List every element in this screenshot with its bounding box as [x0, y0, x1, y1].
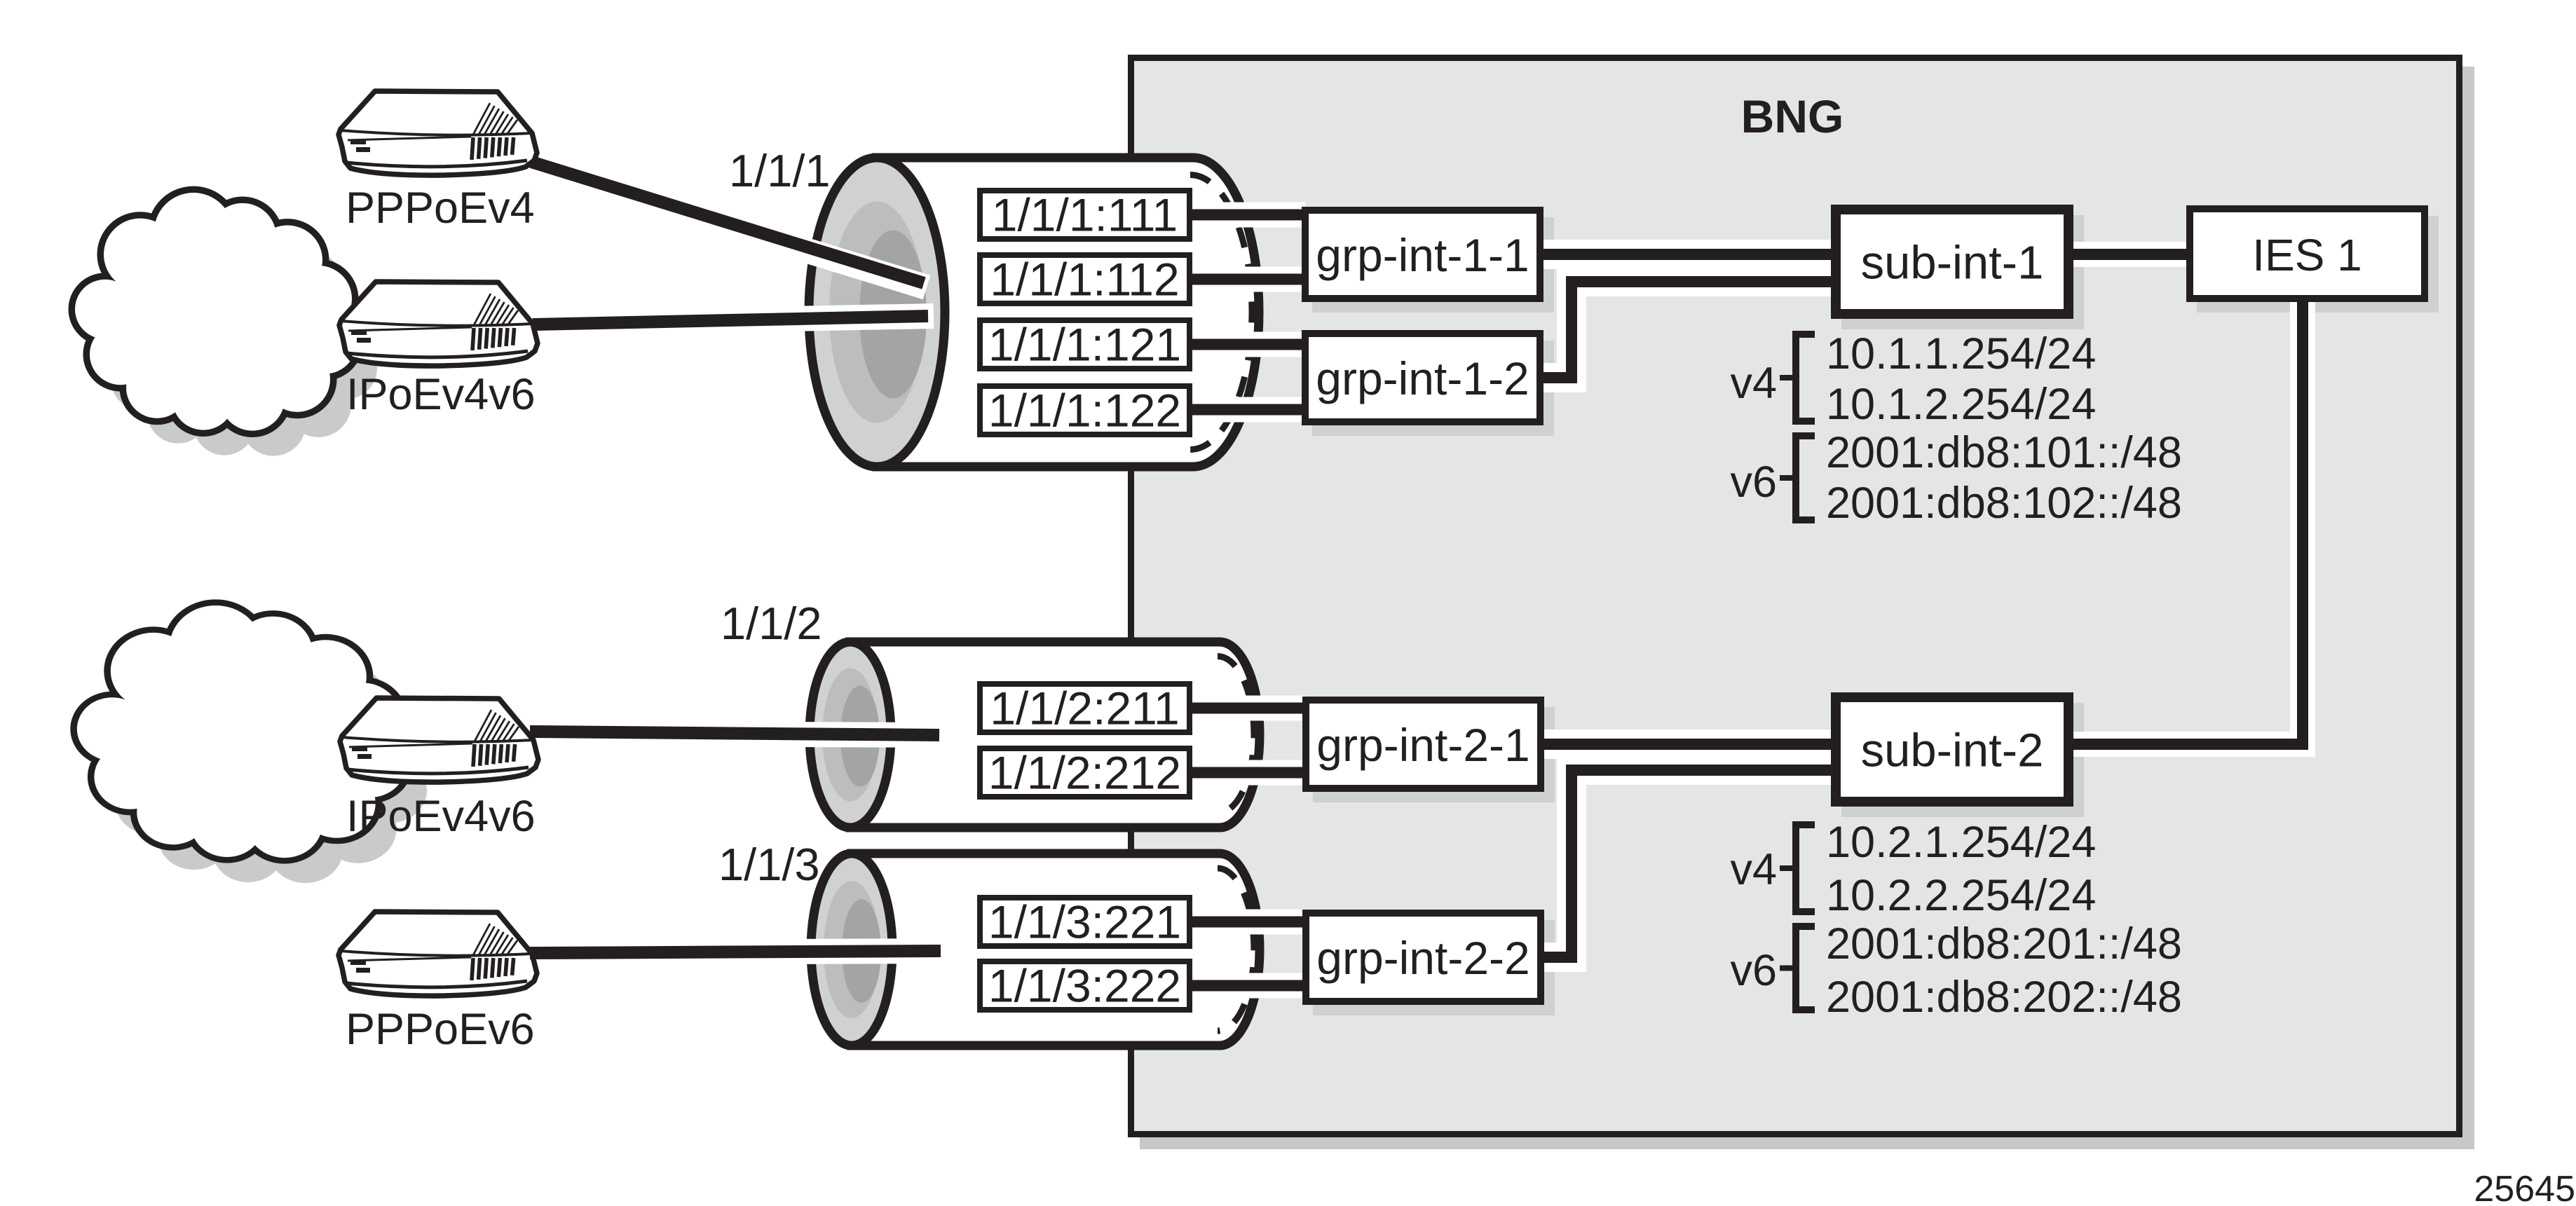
svg-text:10.2.1.254/24: 10.2.1.254/24 — [1826, 818, 2096, 867]
svg-text:IES 1: IES 1 — [2252, 230, 2362, 280]
svg-text:grp-int-1-2: grp-int-1-2 — [1316, 352, 1529, 404]
svg-text:grp-int-2-1: grp-int-2-1 — [1316, 719, 1529, 771]
svg-text:1/1/3: 1/1/3 — [718, 839, 820, 890]
svg-text:v4: v4 — [1730, 845, 1777, 894]
svg-text:1/1/3:221: 1/1/3:221 — [988, 896, 1181, 948]
svg-text:PPPoEv6: PPPoEv6 — [346, 1005, 535, 1054]
svg-text:IPoEv4v6: IPoEv4v6 — [346, 792, 536, 841]
svg-text:grp-int-2-2: grp-int-2-2 — [1316, 932, 1529, 984]
svg-text:1/1/2:212: 1/1/2:212 — [988, 747, 1181, 799]
svg-text:1/1/1: 1/1/1 — [729, 145, 831, 196]
svg-text:grp-int-1-1: grp-int-1-1 — [1316, 229, 1529, 281]
svg-text:1/1/1:121: 1/1/1:121 — [988, 319, 1181, 371]
svg-text:2001:db8:202::/48: 2001:db8:202::/48 — [1826, 973, 2182, 1022]
svg-text:sub-int-2: sub-int-2 — [1861, 725, 2044, 777]
svg-text:25645: 25645 — [2474, 1169, 2575, 1206]
svg-text:BNG: BNG — [1741, 90, 1844, 142]
svg-text:1/1/1:111: 1/1/1:111 — [992, 189, 1178, 241]
svg-text:1/1/2:211: 1/1/2:211 — [990, 683, 1179, 734]
svg-text:IPoEv4v6: IPoEv4v6 — [346, 370, 536, 419]
svg-text:10.1.2.254/24: 10.1.2.254/24 — [1826, 380, 2096, 429]
svg-text:v6: v6 — [1730, 946, 1777, 995]
svg-text:2001:db8:101::/48: 2001:db8:101::/48 — [1826, 428, 2182, 477]
svg-text:v6: v6 — [1730, 458, 1777, 507]
svg-text:2001:db8:201::/48: 2001:db8:201::/48 — [1826, 919, 2182, 968]
svg-text:v4: v4 — [1730, 359, 1777, 408]
svg-text:2001:db8:102::/48: 2001:db8:102::/48 — [1826, 479, 2182, 528]
svg-text:PPPoEv4: PPPoEv4 — [346, 184, 535, 233]
svg-text:1/1/2: 1/1/2 — [721, 598, 822, 649]
svg-text:1/1/3:222: 1/1/3:222 — [988, 960, 1181, 1012]
svg-text:1/1/1:122: 1/1/1:122 — [988, 385, 1181, 437]
svg-text:10.2.2.254/24: 10.2.2.254/24 — [1826, 871, 2096, 920]
svg-text:sub-int-1: sub-int-1 — [1861, 237, 2044, 289]
svg-text:10.1.1.254/24: 10.1.1.254/24 — [1826, 329, 2096, 378]
svg-text:1/1/1:112: 1/1/1:112 — [990, 254, 1179, 306]
